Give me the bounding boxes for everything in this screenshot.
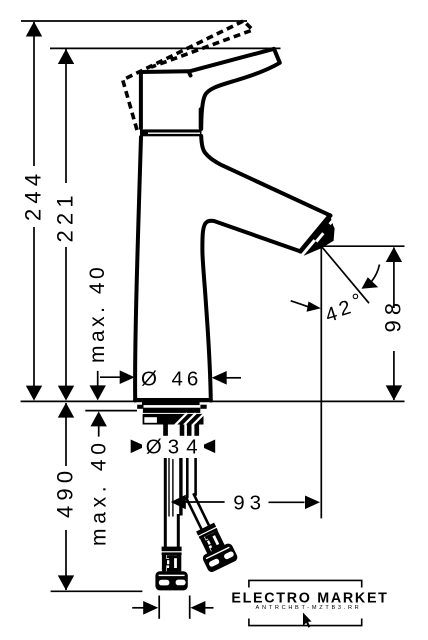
svg-text:98: 98 [381, 298, 406, 333]
svg-text:46: 46 [172, 368, 203, 391]
svg-text:221: 221 [52, 190, 77, 242]
svg-text:Ø: Ø [146, 436, 162, 459]
svg-text:244: 244 [20, 169, 45, 221]
svg-text:93: 93 [233, 492, 266, 515]
svg-text:ANTRCHBT-MZTB3.RR: ANTRCHBT-MZTB3.RR [256, 605, 362, 611]
svg-text:max. 40: max. 40 [86, 264, 109, 363]
svg-text:Ø: Ø [141, 368, 157, 391]
svg-text:490: 490 [52, 466, 77, 518]
svg-text:34: 34 [168, 436, 205, 459]
svg-text:max. 40: max. 40 [88, 438, 111, 546]
